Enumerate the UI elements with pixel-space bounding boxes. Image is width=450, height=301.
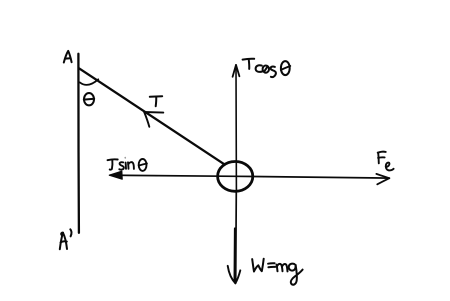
ball (charged sphere) bbox=[218, 162, 253, 192]
label T (string tension) bbox=[150, 96, 162, 106]
down arrowhead (W) bbox=[228, 266, 241, 284]
label T sin theta bbox=[108, 158, 147, 171]
vertical force line (up through ball to down) bbox=[235, 65, 237, 191]
label W = mg bbox=[252, 259, 302, 285]
label F_e bbox=[378, 152, 394, 171]
left arrowhead (T sin theta) bbox=[109, 171, 122, 179]
wall line A-A' bbox=[77, 54, 80, 233]
label T cos theta bbox=[243, 59, 291, 77]
string T (wall to ball) bbox=[79, 68, 224, 164]
angle arc bbox=[80, 79, 98, 85]
arrowhead on string bbox=[144, 112, 163, 127]
label A' bbox=[60, 229, 72, 249]
horizontal force line bbox=[110, 175, 389, 178]
label A bbox=[64, 51, 72, 63]
right arrowhead (F_e) bbox=[376, 174, 389, 184]
up arrowhead (T cos theta) bbox=[233, 65, 240, 77]
label theta (angle) bbox=[84, 93, 94, 105]
